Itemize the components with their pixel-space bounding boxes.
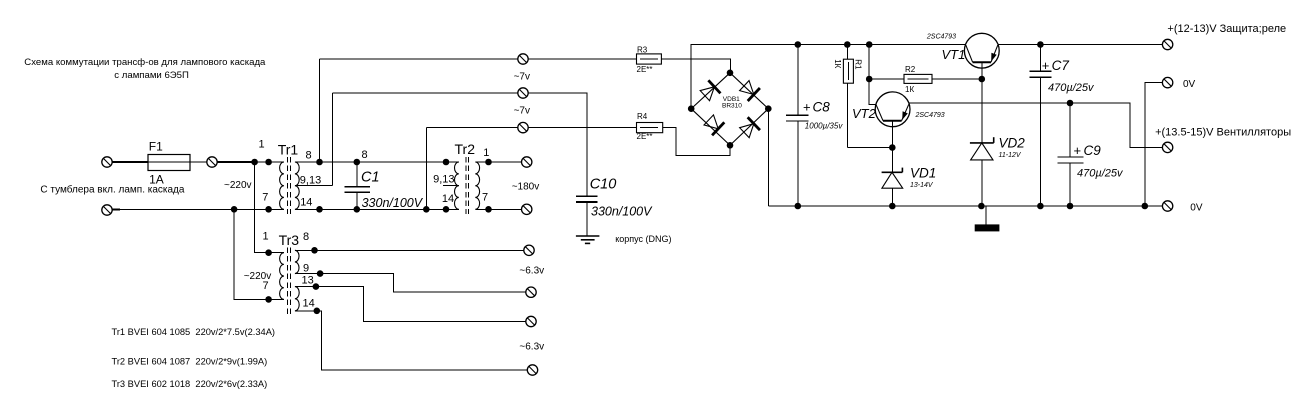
wire top input to Tr1 pin 1 <box>217 161 253 163</box>
bridge corner nodes <box>727 70 734 77</box>
transformer Tr3 <box>234 162 323 315</box>
svg-text:1: 1 <box>259 139 265 151</box>
svg-text:Tr1: Tr1 <box>278 142 299 158</box>
svg-text:C7: C7 <box>1052 58 1070 73</box>
svg-text:470µ/25v: 470µ/25v <box>1077 168 1124 180</box>
wire bottom rail <box>768 205 1162 207</box>
Tr1 pin 14 <box>316 206 323 213</box>
terminal 0V upper <box>1162 77 1172 87</box>
svg-text:1: 1 <box>483 147 489 159</box>
wire R1 to VT2 emitter node <box>847 147 892 149</box>
wire filament bottom rail <box>295 208 459 210</box>
capacitor C10 <box>576 176 653 235</box>
svg-text:Tr3: Tr3 <box>279 232 300 248</box>
Tr1 pins 9,13 tap <box>295 185 333 187</box>
svg-text:1000µ/35v: 1000µ/35v <box>805 122 844 131</box>
svg-text:~6.3v: ~6.3v <box>519 266 544 277</box>
svg-text:R1: R1 <box>853 59 862 70</box>
svg-text:+(12-13)V Защита;реле: +(12-13)V Защита;реле <box>1167 23 1286 35</box>
wire Tr2 pin1 to terminal <box>475 161 521 163</box>
zener diode VD2 <box>970 135 1025 209</box>
Tr3 pin 1 <box>265 249 272 256</box>
wire input top to fuse <box>112 161 148 163</box>
svg-text:7: 7 <box>482 192 488 204</box>
Tr3 primary winding <box>280 253 284 300</box>
svg-text:R2: R2 <box>905 65 916 74</box>
transistor VT2 <box>852 92 945 127</box>
node junction bottom wire to Tr3 <box>231 206 238 213</box>
svg-text:VT1: VT1 <box>942 47 966 62</box>
Tr1 pin 1 <box>265 159 272 166</box>
Tr3 secondary winding 8-9 <box>295 250 299 273</box>
wire fuse to terminal <box>190 161 207 163</box>
capacitor C7 <box>1030 41 1095 209</box>
bridge edges <box>691 73 768 146</box>
terminal +13.5-15V <box>1162 142 1172 152</box>
wire terminal 3 to R4 <box>528 127 636 129</box>
node top rail to VT2 branch <box>866 41 873 48</box>
terminal ~180v bottom <box>522 204 532 214</box>
Tr3 pin 7 <box>265 296 272 303</box>
svg-text:C1: C1 <box>361 170 380 186</box>
Tr2 pin 14 node bottom <box>443 206 450 213</box>
svg-text:9,13: 9,13 <box>300 175 321 187</box>
svg-text:+: + <box>1074 143 1082 158</box>
svg-text:8: 8 <box>306 150 312 162</box>
svg-text:+: + <box>803 100 811 115</box>
transformer Tr2 <box>433 141 492 214</box>
input terminal top <box>102 157 112 167</box>
svg-text:330n/100V: 330n/100V <box>591 204 653 218</box>
terminal 6.3v line4 <box>527 365 537 375</box>
capacitor C9 <box>1058 100 1124 210</box>
svg-text:8: 8 <box>362 149 368 161</box>
svg-text:VD1: VD1 <box>910 165 936 180</box>
Tr2 core <box>465 157 467 214</box>
svg-text:2Е**: 2Е** <box>637 132 653 141</box>
svg-text:330n/100V: 330n/100V <box>362 196 424 210</box>
svg-text:BR310: BR310 <box>722 103 742 110</box>
terminal 0V lower <box>1162 201 1172 211</box>
terminal line 3 <box>518 122 528 132</box>
Tr2 pin 1 <box>485 159 492 166</box>
fuse F1 <box>148 140 190 187</box>
svg-text:2SC4793: 2SC4793 <box>915 112 945 119</box>
svg-text:Tr1 BVEI 604 1085 220v/2*7.5v: Tr1 BVEI 604 1085 220v/2*7.5v(2.34A) <box>112 327 276 337</box>
Tr2 pin 7 <box>485 206 492 213</box>
svg-text:13-14V: 13-14V <box>910 182 934 189</box>
resistor R3 <box>637 45 662 74</box>
wire Tr3 pin8 to terminal <box>295 249 524 251</box>
Tr3 secondary winding 13-14 <box>295 287 299 311</box>
svg-text:~180v: ~180v <box>512 182 540 193</box>
svg-text:7: 7 <box>262 192 268 204</box>
Tr1 secondary winding <box>295 162 299 209</box>
transformer Tr1 <box>259 139 333 215</box>
svg-text:8: 8 <box>303 231 309 243</box>
svg-text:~220v: ~220v <box>224 180 252 191</box>
title text <box>24 57 266 81</box>
svg-text:с лампами 6Э5П: с лампами 6Э5П <box>114 70 189 81</box>
svg-text:9: 9 <box>303 263 309 275</box>
svg-text:корпус (DNG): корпус (DNG) <box>615 234 671 244</box>
wire Tr3 pin13 to terminal <box>295 287 526 322</box>
svg-text:Tr3 BVEI 602 1018 220v/2*6v(2: Tr3 BVEI 602 1018 220v/2*6v(2.33A) <box>112 379 268 389</box>
diode D1 top-left <box>699 80 721 102</box>
wire from top junction to Tr3 pin 1 <box>255 162 284 253</box>
wire filament top rail <box>295 161 459 163</box>
svg-text:Схема коммутации трансф-ов для: Схема коммутации трансф-ов для лампового… <box>24 57 266 68</box>
zener diode VD1 <box>882 165 937 209</box>
Tr3 pin 14 <box>314 308 321 315</box>
node VT2 base R1 <box>889 144 896 151</box>
wire Tr3 pin14 to terminal <box>295 311 527 370</box>
Tr2 right winding <box>475 162 479 209</box>
wire bridge minus to bottom rail <box>767 109 769 206</box>
terminal 6.3v line2 <box>526 287 536 297</box>
svg-text:0V: 0V <box>1190 202 1203 213</box>
Tr3 pin 8 <box>311 247 318 254</box>
diode D4 bottom-right <box>738 117 760 139</box>
wire from bottom junction to Tr3 pin 7 <box>234 209 284 299</box>
svg-text:C9: C9 <box>1084 143 1102 158</box>
resistor R1 <box>833 41 863 147</box>
svg-text:13: 13 <box>302 275 314 287</box>
svg-text:1К: 1К <box>833 59 842 68</box>
wire ~7v line 2 <box>333 92 518 94</box>
resistor R2 <box>866 65 985 94</box>
wire VT2 base down to VD1 <box>891 121 893 172</box>
wire terminal to R3 <box>528 58 636 60</box>
Tr3 core <box>287 248 289 315</box>
node riser wire3 to bottom rail <box>425 128 427 210</box>
ground symbol <box>975 206 1000 231</box>
diode D2 top-right <box>738 79 760 101</box>
Tr3 pin 13 <box>313 283 320 290</box>
svg-text:0V: 0V <box>1183 79 1196 90</box>
svg-text:1: 1 <box>263 231 269 243</box>
input terminal bottom <box>102 205 112 215</box>
svg-text:14: 14 <box>442 193 454 205</box>
svg-text:VD2: VD2 <box>999 135 1026 150</box>
svg-text:Tr2: Tr2 <box>455 141 476 157</box>
wire 0V link vertical <box>1145 83 1163 206</box>
wire R4 to bridge bottom <box>663 128 730 156</box>
terminal +12-13V <box>1162 39 1172 49</box>
svg-text:~7v: ~7v <box>514 72 530 83</box>
input terminal mid <box>207 157 217 167</box>
wire top rail down to VT2 collector <box>869 45 876 105</box>
transistor VT1 <box>926 33 999 68</box>
svg-text:+(13.5-15)V Вентилляторы: +(13.5-15)V Вентилляторы <box>1155 126 1291 138</box>
svg-text:C8: C8 <box>813 100 831 115</box>
svg-text:F1: F1 <box>149 140 163 154</box>
wire Tr2 pin7 to terminal <box>475 208 521 210</box>
terminal ~180v top <box>522 157 532 167</box>
svg-text:VT2: VT2 <box>852 106 877 121</box>
terminal ~7v 2 <box>518 88 528 98</box>
svg-text:9,13: 9,13 <box>433 173 454 185</box>
svg-text:14: 14 <box>300 197 312 209</box>
svg-text:+: + <box>1042 58 1050 73</box>
Tr2 left winding <box>455 162 459 209</box>
svg-text:2Е**: 2Е** <box>637 65 653 74</box>
Tr3 pin 9 <box>317 270 324 277</box>
terminal 6.3v line1 <box>524 245 534 255</box>
svg-text:С тумблера вкл. ламп. каскада: С тумблера вкл. ламп. каскада <box>40 184 185 196</box>
terminal ~7v 1 <box>518 54 528 64</box>
svg-text:R3: R3 <box>637 45 648 54</box>
wire riser tap to ~7v wire2 <box>332 93 334 186</box>
wire VT1 base down to VD2 <box>981 62 983 142</box>
wire bottom input rail <box>112 209 120 211</box>
wire VT1 emitter to output rail <box>998 44 1163 46</box>
svg-text:14: 14 <box>303 298 315 310</box>
wire terminal 2 to C10 <box>528 93 587 195</box>
wire line 3 from bottom rail riser <box>426 127 518 129</box>
svg-text:1К: 1К <box>905 85 914 94</box>
Tr1 pin 8 <box>316 159 323 166</box>
terminal 6.3v line3 <box>526 316 536 326</box>
bridge rectifier VDB1 BR310 <box>688 70 772 149</box>
wire VT2 emitter to fan output <box>909 103 1163 147</box>
Tr2 pin 8 node top <box>443 159 450 166</box>
svg-text:C10: C10 <box>590 176 617 192</box>
svg-text:11-12V: 11-12V <box>999 152 1022 159</box>
capacitor C1 <box>345 149 424 213</box>
Tr1 primary winding <box>280 162 284 209</box>
Tr1 pin 7 <box>265 206 272 213</box>
svg-text:R4: R4 <box>637 112 648 121</box>
wire ~7v line 1 <box>320 58 518 60</box>
resistor R4 <box>637 112 663 141</box>
capacitor C8 <box>786 41 843 209</box>
node junction top wire to Tr3 <box>251 159 258 166</box>
svg-text:~6.3v: ~6.3v <box>519 341 544 352</box>
svg-text:470µ/25v: 470µ/25v <box>1048 82 1095 94</box>
svg-text:2SC4793: 2SC4793 <box>926 33 956 40</box>
svg-text:~7v: ~7v <box>514 106 530 117</box>
svg-text:Tr2 BVEI 604 1087 220v/2*9v(1: Tr2 BVEI 604 1087 220v/2*9v(1.99A) <box>112 357 268 367</box>
Tr1 core <box>287 157 289 214</box>
svg-text:~220v: ~220v <box>244 271 272 282</box>
diode D3 bottom-left <box>703 113 725 135</box>
wire riser pin8 to ~7v wire1 <box>319 59 321 162</box>
wire Tr3 pin9 to terminal <box>295 274 526 293</box>
wire R3 to bridge top <box>661 59 730 73</box>
wire bridge plus to top rail <box>691 45 965 109</box>
chassis ground C10 <box>576 236 600 243</box>
